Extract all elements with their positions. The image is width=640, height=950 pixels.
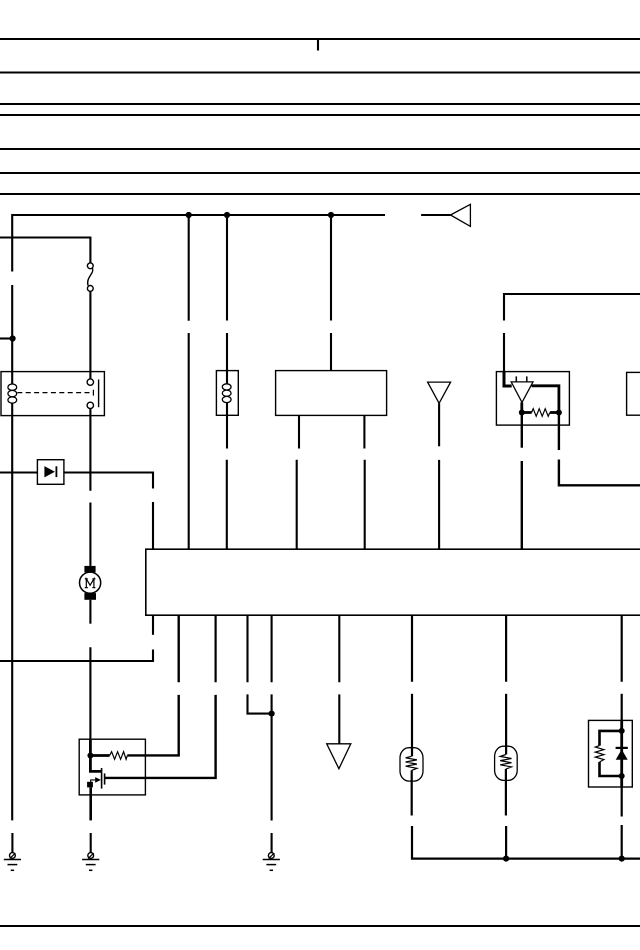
wire bus to ground lower <box>271 694 273 820</box>
mosfet Q1 body connection <box>91 780 96 785</box>
op-amp U2 pin 2 <box>526 376 528 382</box>
motor M1 lower brush <box>84 593 96 600</box>
diode D1 cathode bar <box>55 466 57 477</box>
node junction at left stub <box>10 335 16 341</box>
wire bus to diode network upper <box>621 615 623 682</box>
node junction B3 top <box>619 728 625 734</box>
relay K1 case <box>1 372 104 416</box>
switch S1 upper contact <box>87 263 93 269</box>
wire op-amp feed lower <box>503 333 505 372</box>
wire diode network main <box>620 720 623 787</box>
wire mosfet node to resistor <box>90 754 109 757</box>
op-amp U2 case <box>496 372 569 426</box>
node junction lamp2 bottom <box>503 856 509 862</box>
wire bus to lamp2 upper <box>505 615 507 682</box>
wire bus to T2 lower <box>338 694 340 743</box>
off-page triangle T1 <box>428 382 451 403</box>
page rule line 2 <box>0 71 640 73</box>
wire bus to ground upper <box>271 615 273 682</box>
wire motor to mosfet lower <box>89 647 91 741</box>
mosfet Q1 gate bar <box>101 768 103 789</box>
wire to feedback resistor <box>522 411 532 414</box>
wire op-amp out left upper <box>521 413 523 448</box>
mosfet Q1 case <box>79 739 145 795</box>
relay K1 linkage (dashed) <box>17 392 93 394</box>
wire diode output <box>64 473 153 489</box>
motor M1 letter <box>85 579 96 588</box>
wire B1 lead 2 upper <box>363 415 365 448</box>
component box B2 at right edge <box>627 372 640 415</box>
page rule line 4 <box>0 114 640 116</box>
wire bus feed at x189 upper <box>188 215 190 321</box>
diode network B3 case <box>589 720 633 787</box>
wire lamp1 to bottom rail <box>412 826 640 859</box>
off-page triangle T2 <box>327 744 351 769</box>
op-amp U2 pin 1 <box>515 376 517 382</box>
ground G2 <box>82 853 99 871</box>
relay K1 linkage tick <box>92 390 94 396</box>
wire bus to mosfet drain lower <box>105 695 216 778</box>
wire box B1 feed at x331 <box>330 215 332 321</box>
tick mark on rule 1 <box>317 39 319 51</box>
ground G1 wire <box>11 833 13 853</box>
wire main feed horizontal <box>12 215 385 272</box>
ground G1 <box>4 853 21 871</box>
wire bus to lamp1 lower <box>411 694 413 757</box>
wire stub from left edge <box>0 337 13 339</box>
ground G2 wire <box>90 833 92 853</box>
wire bus to T2 upper <box>338 615 340 682</box>
diode D2 <box>616 749 628 759</box>
wire coil feed at x227 upper <box>226 215 228 321</box>
wire feedback loop <box>532 386 559 413</box>
page rule line 1 <box>0 38 640 40</box>
wire coil feed at x227 lower <box>226 333 228 384</box>
relay K1 contact upper <box>87 379 93 385</box>
lamp L4 filament <box>500 755 511 770</box>
wire bottom left horizontal <box>0 650 153 662</box>
motor M1 upper brush <box>84 566 95 573</box>
wire mosfet gate feed <box>90 756 101 772</box>
coil L2 case <box>216 371 238 416</box>
resistor R2 <box>110 752 128 760</box>
node junction B3 bottom rail <box>619 856 625 862</box>
page rule line 5 <box>0 148 640 150</box>
wire relay coil to ground run <box>11 403 13 820</box>
wire op-amp out right to edge <box>559 460 640 486</box>
component box B1 <box>276 371 387 416</box>
node junction on feed at x331 <box>328 212 334 218</box>
wire T1 to bus upper <box>438 403 440 446</box>
wire coil to bus upper <box>226 403 228 449</box>
wire motor to mosfet upper <box>89 600 91 624</box>
wire B3 to bottom rail upper <box>621 787 623 817</box>
wire relay contact to motor lower <box>89 503 91 566</box>
page rule line 6 <box>0 172 640 174</box>
ground G3 wire <box>271 833 273 853</box>
mosfet Q1 source terminal <box>87 782 93 788</box>
node op-amp output junction <box>519 410 525 416</box>
page rule line 7 <box>0 193 640 195</box>
relay K1 contact lower <box>87 402 93 408</box>
wire bus to mosfet drain upper <box>215 615 217 682</box>
lamp L3 filament <box>406 756 417 770</box>
wire switch feed from left edge <box>0 238 90 263</box>
wire box B1 feed lower <box>330 333 332 371</box>
node feedback junction <box>556 410 562 416</box>
diode D2 cathode bar <box>616 747 628 749</box>
wire lamp2 below <box>505 769 507 816</box>
relay K1 coil <box>8 384 17 403</box>
wire op-amp feed horizontal <box>504 294 640 321</box>
wire bus feed at x189 lower <box>188 333 190 549</box>
wire bus drop at x247 upper <box>246 615 248 682</box>
wire op-amp out left lower <box>521 461 523 549</box>
node junction mosfet <box>87 753 93 759</box>
wire coil to bus lower <box>226 460 228 549</box>
motor M1 body <box>80 572 101 593</box>
wire B3 to bottom rail lower <box>621 825 623 859</box>
wire left branch lower segment <box>11 285 13 385</box>
node junction B3 bottom <box>619 773 625 779</box>
wire bus drop at x152 <box>152 615 154 635</box>
wire B1 lead 1 lower <box>296 460 298 549</box>
wire lamp1 below <box>411 770 413 815</box>
op-amp U2 triangle <box>511 382 533 403</box>
wire bus to diode network lower <box>621 694 623 721</box>
page rule line 3 <box>0 103 640 105</box>
wire bus to mosfet resistor lower <box>127 695 178 756</box>
node junction on feed at x189 <box>186 212 192 218</box>
wire bus to lamp1 upper <box>411 615 413 682</box>
wire B1 lead 1 upper <box>298 415 300 448</box>
wire lamp2 to bottom rail <box>505 826 507 859</box>
wire op-amp input <box>504 372 512 386</box>
switch S1 blade <box>88 268 93 285</box>
wire relay contact to motor upper <box>89 409 91 491</box>
wire switch to relay contact <box>89 291 91 379</box>
wire B3 resistor branch lower <box>600 762 622 776</box>
relay K1 armature <box>98 380 100 408</box>
wire op-amp out right upper <box>558 413 560 451</box>
wire B3 resistor branch upper <box>600 731 622 746</box>
diode D1 case <box>37 460 64 485</box>
mosfet Q1 channel bar <box>104 773 106 784</box>
lamp L3 bulb <box>400 748 423 781</box>
page rule line bottom <box>0 925 640 927</box>
control unit bus box <box>146 549 640 615</box>
switch S1 lower contact <box>87 286 93 292</box>
diode D1 <box>44 466 55 477</box>
coil L2 windings <box>222 384 231 403</box>
wire bus drop at x247 lower <box>248 694 272 713</box>
diode D1 feed wire from left edge <box>0 471 37 473</box>
wire mosfet source to ground <box>89 787 92 820</box>
wire op-amp output <box>520 402 523 412</box>
mosfet Q1 body arrow <box>95 777 101 783</box>
wire diode output lower segment <box>152 502 154 549</box>
wire bus to lamp2 lower <box>505 694 507 755</box>
resistor R3 <box>595 746 604 762</box>
wire resistor to node <box>550 411 559 414</box>
node junction at x271 <box>269 711 275 717</box>
node junction on feed at x227 <box>224 212 230 218</box>
ground G3 <box>263 853 280 871</box>
wire to off-page arrow <box>421 214 450 216</box>
lamp L4 bulb <box>495 746 518 780</box>
off-page connector arrow <box>451 204 471 226</box>
wire bus to mosfet resistor upper <box>177 615 179 682</box>
wire mosfet drain node <box>89 740 92 756</box>
wire B1 lead 2 lower <box>364 460 366 549</box>
resistor R1 feedback <box>532 409 550 417</box>
wire T1 to bus lower <box>438 460 440 549</box>
